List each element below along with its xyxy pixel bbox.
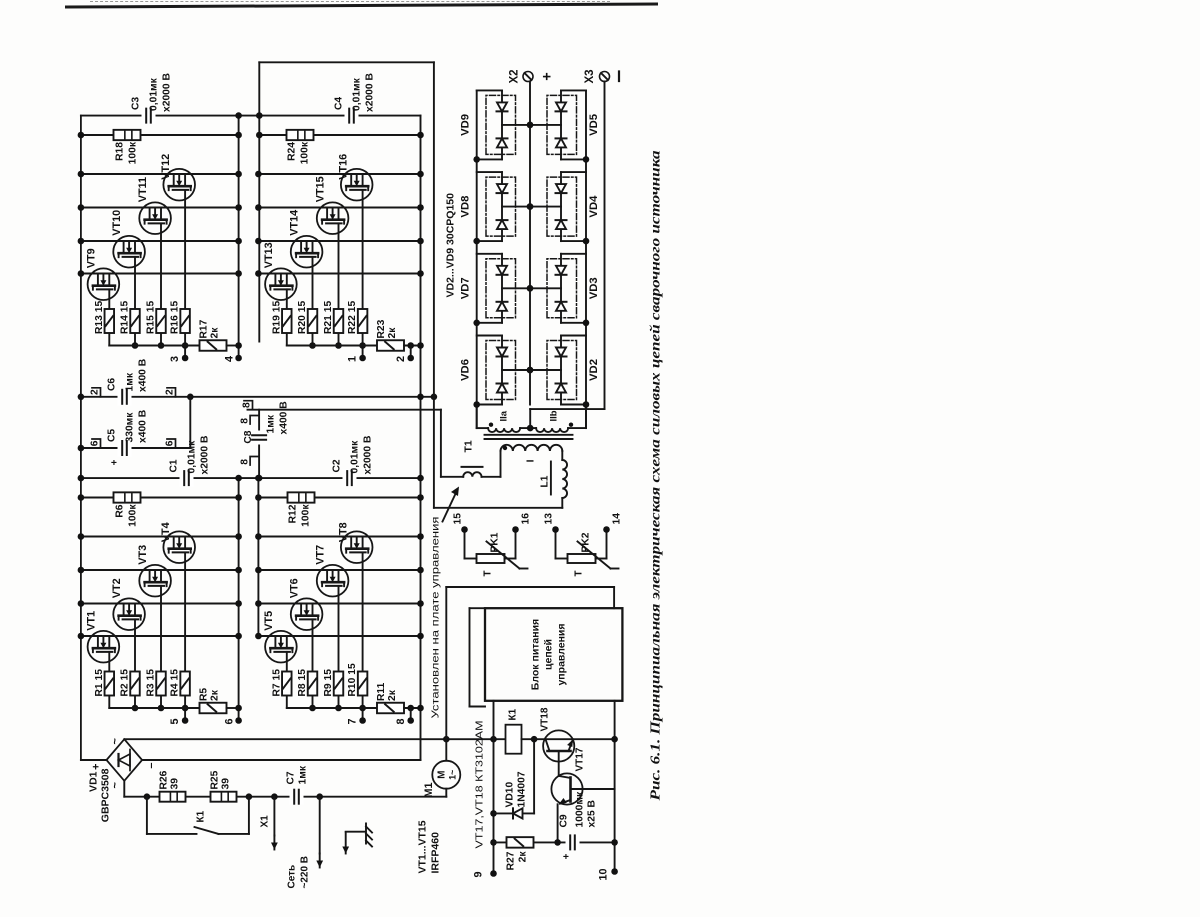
svg-text:VT1...VT15: VT1...VT15 bbox=[416, 820, 428, 873]
wire R18 line bbox=[80, 134, 238, 136]
label installed on control board bbox=[429, 516, 441, 718]
svg-text:C1: C1 bbox=[168, 459, 179, 472]
junction dots column VT7 bbox=[255, 566, 424, 573]
junction dots column VT10 bbox=[77, 237, 241, 244]
svg-text:R26: R26 bbox=[158, 770, 169, 789]
wire gate bus bbox=[109, 707, 199, 709]
transformer T1 core bbox=[484, 434, 572, 438]
junction dot VD10-K1 node bbox=[530, 735, 537, 742]
svg-text:0,01мк: 0,01мк bbox=[351, 77, 362, 111]
svg-text:х2000 В: х2000 В bbox=[161, 73, 172, 112]
svg-text:8: 8 bbox=[239, 458, 250, 464]
junction dots column VT14 bbox=[255, 237, 424, 244]
svg-text:8: 8 bbox=[241, 401, 252, 407]
label VT5 bbox=[262, 610, 274, 630]
svg-text:6: 6 bbox=[89, 440, 100, 446]
wire IIa top to rectifier anode bus bbox=[476, 404, 487, 428]
svg-text:1N4007: 1N4007 bbox=[516, 771, 527, 807]
resistor R5 2k bbox=[199, 702, 226, 713]
label PK2 bbox=[580, 532, 591, 552]
junction dots column VT13 bbox=[255, 270, 424, 277]
svg-text:х2000 В: х2000 В bbox=[362, 435, 373, 474]
transistor VT18 bbox=[543, 730, 574, 761]
wire secondary center segment bbox=[520, 427, 536, 429]
svg-text:х25 В: х25 В bbox=[586, 800, 597, 827]
resistor R10 15 bbox=[357, 671, 367, 695]
svg-text:IRFP460: IRFP460 bbox=[429, 831, 441, 873]
junction dot VD7 on anode bus bbox=[473, 319, 480, 326]
svg-text:2к: 2к bbox=[387, 326, 398, 338]
label VT11 bbox=[137, 176, 149, 201]
svg-text:R25: R25 bbox=[209, 770, 220, 789]
label K1 contact bbox=[195, 810, 206, 822]
wires PK1 to terminals bbox=[461, 526, 519, 558]
label R26 39 bbox=[158, 770, 180, 789]
diode VD3 left half bbox=[555, 301, 566, 310]
terminal 4 (source return) bbox=[223, 354, 241, 361]
terminal X2 bbox=[508, 69, 555, 83]
faint dashed remnant above rule bbox=[90, 1, 610, 3]
label R2 15 bbox=[119, 668, 130, 696]
gate wire VT5 bbox=[285, 651, 287, 707]
junction dots R24 line bbox=[256, 131, 424, 138]
wire VD1 AC right vertex supply column bbox=[124, 738, 505, 740]
wire R27-C9 branch bbox=[493, 839, 614, 846]
junction dots column VT6 bbox=[255, 600, 424, 607]
label VD2...VD9 30CPQ150 bbox=[444, 192, 456, 297]
label VD8 bbox=[459, 195, 471, 217]
label R4 15 bbox=[169, 668, 180, 696]
diode VD5 left half bbox=[555, 138, 566, 147]
label VD5 bbox=[588, 113, 600, 135]
label R13 15 bbox=[93, 300, 104, 333]
svg-text:C7: C7 bbox=[285, 771, 296, 784]
svg-text:R5: R5 bbox=[198, 687, 209, 700]
svg-text:0,01мк: 0,01мк bbox=[186, 439, 197, 473]
junction dot C8 branch bbox=[255, 474, 262, 481]
gate wire VT9 bbox=[108, 289, 110, 345]
svg-text:VT4: VT4 bbox=[160, 522, 172, 542]
label R17 2k bbox=[198, 319, 220, 338]
svg-text:Рис. 6.1. Принципиальная элект: Рис. 6.1. Принципиальная электрическая с… bbox=[647, 150, 662, 800]
svg-text:VD6: VD6 bbox=[459, 359, 471, 381]
wire C6 branch bbox=[80, 395, 433, 397]
svg-text:VT17,VT18 КТ3102АМ: VT17,VT18 КТ3102АМ bbox=[474, 720, 485, 848]
net marker 8 left of C8 bbox=[239, 456, 259, 465]
svg-text:0,01мк: 0,01мк bbox=[148, 77, 159, 111]
label VD4 bbox=[588, 194, 600, 217]
net marker 2 lower on C6 branch bbox=[164, 387, 175, 396]
wire +DC top rail bbox=[79, 115, 81, 759]
svg-text:VD10: VD10 bbox=[504, 781, 515, 807]
svg-text:R20 15: R20 15 bbox=[297, 300, 308, 333]
label VD7 bbox=[459, 277, 471, 299]
svg-text:VT13: VT13 bbox=[262, 242, 274, 268]
svg-text:+: + bbox=[539, 72, 555, 80]
svg-text:PK2: PK2 bbox=[580, 532, 591, 552]
svg-text:2: 2 bbox=[395, 355, 407, 361]
transformer T1 secondary IIa bbox=[488, 422, 520, 432]
diode VD2 left half bbox=[555, 383, 566, 392]
relay contact K1 bypass bbox=[146, 796, 248, 833]
capacitor C6 1mk bbox=[117, 388, 131, 405]
capacitor C8 1mk bbox=[250, 430, 267, 444]
label VD1 GBPC3508 bbox=[87, 768, 111, 822]
capacitor C9 1000mk electrolytic bbox=[561, 834, 579, 859]
svg-text:R24: R24 bbox=[286, 141, 297, 160]
svg-text:2к: 2к bbox=[517, 850, 528, 862]
label K1 coil bbox=[507, 708, 518, 720]
junction dots relay lines bbox=[490, 810, 497, 846]
wire terminal 10 line bbox=[613, 700, 615, 871]
label R16 15 bbox=[169, 300, 180, 333]
label VT14 bbox=[288, 209, 300, 235]
junction dot VD3 on anode bus bbox=[582, 319, 589, 326]
junction dot gate bus R9 bbox=[335, 704, 342, 711]
svg-text:VT7: VT7 bbox=[314, 544, 326, 564]
wire C8 branch bbox=[258, 409, 260, 477]
diode pack VD7 30CPQ150 dashed case bbox=[486, 258, 516, 317]
wire drain-source column of VT1 bbox=[80, 635, 238, 637]
wire fan line to PSU AC loop bbox=[446, 587, 614, 739]
junction dots column VT11 bbox=[77, 204, 241, 211]
svg-text:VT15: VT15 bbox=[314, 176, 326, 202]
diode VD9 left half bbox=[496, 138, 507, 147]
relay coil K1 bbox=[505, 724, 521, 753]
terminal 5 (gate drive) bbox=[169, 717, 188, 724]
resistor R7 15 bbox=[282, 671, 292, 695]
diode VD5 right half bbox=[555, 102, 566, 111]
svg-text:VT10: VT10 bbox=[111, 209, 123, 235]
svg-text:100к: 100к bbox=[299, 141, 310, 164]
svg-text:2к: 2к bbox=[209, 689, 220, 701]
transistor VT14 bbox=[290, 235, 322, 267]
svg-text:6: 6 bbox=[223, 718, 235, 724]
terminal X1 mains pin 1 bbox=[271, 796, 278, 849]
terminal X3 bbox=[584, 69, 619, 83]
net marker 6 lower on C5 branch bbox=[164, 439, 175, 448]
net marker 2 upper on C6 branch bbox=[89, 387, 100, 396]
gate wire VT2 bbox=[134, 619, 136, 708]
svg-text:R15 15: R15 15 bbox=[145, 300, 156, 333]
svg-text:х400 В: х400 В bbox=[137, 358, 148, 391]
label VT1...VT15 IRFP460 bbox=[416, 820, 441, 873]
wire mains to fan line bbox=[445, 739, 447, 797]
capacitor C4 bbox=[344, 107, 358, 124]
capacitor C1 bbox=[179, 469, 193, 486]
resistor R13 15 bbox=[104, 309, 114, 333]
svg-text:VT18: VT18 bbox=[539, 707, 550, 731]
label R27 2k bbox=[505, 850, 528, 870]
svg-text:R23: R23 bbox=[376, 319, 387, 338]
svg-text:VD3: VD3 bbox=[588, 277, 600, 299]
wire drain-source column of VT8 bbox=[258, 535, 420, 537]
wire R17 to bottom rail bbox=[226, 344, 238, 346]
wire drain-source column of VT3 bbox=[80, 569, 238, 571]
label VT16 bbox=[337, 153, 349, 179]
label VT13 bbox=[262, 242, 274, 268]
transistor VT12 bbox=[163, 168, 195, 200]
terminal X1 mains pin 2 bbox=[316, 796, 323, 867]
svg-text:R17: R17 bbox=[198, 319, 209, 338]
wire net 8 to current transformer bbox=[439, 409, 441, 476]
svg-text:VT3: VT3 bbox=[137, 544, 149, 564]
wires diode pack VD7 anodes to bus bbox=[476, 253, 501, 322]
wires diode pack VD6 anodes to bus bbox=[476, 335, 501, 404]
junction dot VD8 on anode bus bbox=[473, 237, 480, 244]
terminal 1 (gate drive) bbox=[346, 354, 365, 361]
svg-text:100к: 100к bbox=[127, 503, 138, 526]
junction dots R12 line bbox=[255, 494, 424, 501]
label VT17 bbox=[574, 747, 585, 771]
svg-text:0,01мк: 0,01мк bbox=[349, 439, 360, 473]
wire C3-C4 snubber line bbox=[80, 114, 420, 116]
diode VD4 right half bbox=[555, 184, 566, 193]
diode pack VD8 30CPQ150 dashed case bbox=[486, 177, 516, 236]
wire drain-source column of VT12 bbox=[80, 173, 238, 175]
wire -DC bottom rail bbox=[419, 115, 421, 759]
junction dot gate bus R15 bbox=[157, 342, 164, 349]
gate wire VT13 bbox=[285, 289, 287, 345]
svg-text:VT6: VT6 bbox=[288, 578, 300, 598]
wire mains line bbox=[124, 795, 446, 797]
svg-text:IIb: IIb bbox=[548, 410, 559, 421]
junction dots R18 line bbox=[77, 131, 241, 138]
transistor VT5 bbox=[265, 630, 297, 662]
svg-text:~: ~ bbox=[109, 737, 121, 744]
wire VT17 base down bbox=[570, 788, 614, 790]
junction dots mains line bbox=[143, 793, 322, 800]
svg-text:Т: Т bbox=[573, 570, 584, 576]
svg-text:VT16: VT16 bbox=[337, 153, 349, 179]
resistor R17 2k bbox=[199, 340, 226, 351]
label R18 100k bbox=[114, 141, 138, 164]
label R10 15 bbox=[347, 663, 358, 696]
chassis ground bbox=[342, 823, 372, 853]
label VT12 bbox=[160, 153, 172, 179]
svg-text:R10 15: R10 15 bbox=[347, 663, 358, 696]
svg-text:R21 15: R21 15 bbox=[323, 300, 334, 333]
inductor L1 bbox=[550, 460, 566, 498]
svg-text:VT5: VT5 bbox=[262, 610, 274, 630]
svg-text:1000мк: 1000мк bbox=[574, 790, 585, 827]
gate wire VT3 bbox=[160, 585, 162, 707]
transistor VT17 bbox=[551, 773, 582, 804]
transistor VT11 bbox=[139, 202, 171, 234]
junction dot gate bus R14 bbox=[131, 342, 138, 349]
svg-text:39: 39 bbox=[220, 777, 231, 789]
label C4 0,01mk x2000V bbox=[333, 73, 375, 112]
svg-text:C2: C2 bbox=[331, 459, 342, 472]
net marker 8 right of C8 bbox=[239, 415, 259, 424]
resistor R24 100k bbox=[286, 129, 313, 139]
terminal labels 13 14 bbox=[543, 512, 622, 524]
svg-text:C9: C9 bbox=[558, 814, 569, 827]
diode pack VD3 30CPQ150 dashed case bbox=[547, 258, 577, 317]
gate wire VT15 bbox=[337, 223, 339, 345]
label R19 15 bbox=[271, 300, 282, 333]
wire C1-C2 snubber line bbox=[80, 477, 420, 479]
wire drain-source column of VT10 bbox=[80, 240, 238, 242]
wire drain-source column of VT2 bbox=[80, 602, 238, 604]
label C1 0,01mk x2000V bbox=[168, 435, 210, 474]
svg-text:Блок питания: Блок питания bbox=[529, 618, 541, 689]
wire drain-source column of VT14 bbox=[258, 240, 420, 242]
svg-text:C4: C4 bbox=[333, 96, 344, 109]
label C5 330mk x400V bbox=[106, 409, 148, 442]
svg-text:39: 39 bbox=[169, 777, 180, 789]
wire VD7 cathode tap bbox=[502, 285, 533, 292]
wire VD6 cathode tap bbox=[502, 366, 533, 373]
wires diode pack VD8 anodes to bus bbox=[476, 172, 501, 241]
label C6 1mk x400V bbox=[106, 358, 148, 391]
svg-text:R8 15: R8 15 bbox=[297, 668, 308, 696]
junction dots column VT1 bbox=[77, 632, 241, 639]
svg-text:управления: управления bbox=[555, 623, 567, 685]
transistor VT6 bbox=[290, 598, 322, 630]
gate wire VT14 bbox=[311, 256, 313, 345]
svg-text:R9 15: R9 15 bbox=[323, 668, 334, 696]
junction dots C1-C2 line bbox=[77, 474, 423, 481]
wires PK2 to terminals bbox=[552, 526, 610, 558]
junction dots column VT4 bbox=[77, 533, 241, 540]
label IIa bbox=[498, 410, 509, 421]
resistor R14 15 bbox=[130, 309, 140, 333]
label VT2 bbox=[111, 578, 123, 598]
svg-text:VD5: VD5 bbox=[588, 113, 600, 135]
transformer T1 primary winding I bbox=[500, 444, 562, 450]
svg-text:VT12: VT12 bbox=[160, 153, 172, 179]
resistor R21 15 bbox=[333, 309, 343, 333]
diode VD7 left half bbox=[496, 301, 507, 310]
label R6 100k bbox=[114, 503, 138, 526]
svg-text:7: 7 bbox=[346, 718, 358, 724]
wire VD8 cathode tap bbox=[502, 203, 533, 210]
junction dot VD5 on anode bus bbox=[582, 156, 589, 163]
junction dots R11 to -rail bbox=[407, 704, 423, 711]
wire VT17 emitter to R27 node bbox=[556, 804, 558, 842]
svg-text:–: – bbox=[145, 762, 157, 768]
wire drain-source column of VT5 bbox=[258, 635, 420, 637]
svg-text:R16 15: R16 15 bbox=[169, 300, 180, 333]
svg-text:X1: X1 bbox=[259, 814, 270, 827]
terminal 6 (source return) bbox=[223, 717, 241, 724]
svg-text:VD7: VD7 bbox=[459, 277, 471, 299]
svg-text:6: 6 bbox=[164, 440, 175, 446]
svg-text:М: М bbox=[436, 770, 447, 778]
svg-text:Т: Т bbox=[482, 570, 493, 576]
transformer T1 secondary IIb bbox=[536, 422, 573, 432]
terminal 9 bbox=[472, 870, 496, 877]
terminal 2 (source return) bbox=[395, 345, 414, 362]
diode VD2 right half bbox=[555, 347, 566, 356]
svg-text:1мк: 1мк bbox=[297, 765, 308, 784]
gate wire VT11 bbox=[160, 223, 162, 345]
junction dot gate bus R2 bbox=[131, 704, 138, 711]
transistor VT16 bbox=[340, 168, 372, 200]
svg-text:R19 15: R19 15 bbox=[271, 300, 282, 333]
gate wire VT6 bbox=[311, 619, 313, 708]
diode VD4 left half bbox=[555, 220, 566, 229]
label C9 1000mk x25V bbox=[558, 790, 597, 827]
wire drain-source column of VT16 bbox=[258, 173, 420, 175]
transistor VT3 bbox=[139, 564, 171, 596]
label C2 0,01mk x2000V bbox=[331, 435, 373, 474]
wire VD3 cathode tap bbox=[526, 285, 560, 292]
svg-text:1~: 1~ bbox=[447, 769, 457, 779]
diode VD6 right half bbox=[496, 347, 507, 356]
svg-text:+: + bbox=[561, 853, 572, 859]
gate wire VT7 bbox=[337, 585, 339, 707]
current transformer primary bbox=[440, 466, 500, 476]
junction dots column VT12 bbox=[77, 170, 241, 177]
arrow to current transformer bbox=[442, 486, 459, 521]
wire drain-source column of VT4 bbox=[80, 535, 238, 537]
capacitor C3 bbox=[141, 107, 155, 124]
fan motor M1 bbox=[432, 760, 460, 788]
resistor R15 15 bbox=[156, 309, 166, 333]
label VT17,VT18 KT3102AM bbox=[474, 720, 485, 848]
wire block I bottom rail (net 6) bbox=[237, 478, 239, 720]
resistor R19 15 bbox=[282, 309, 292, 333]
svg-text:4: 4 bbox=[223, 355, 235, 361]
wire block II top rail bbox=[257, 478, 259, 636]
svg-text:Сеть: Сеть bbox=[286, 864, 297, 888]
label R23 2k bbox=[376, 319, 398, 338]
resistor R9 15 bbox=[333, 671, 343, 695]
junction dots C6 branch bbox=[77, 393, 437, 400]
wire block III bottom rail (net 4) bbox=[237, 115, 239, 359]
transistor VT2 bbox=[113, 598, 145, 630]
transistor VT15 bbox=[316, 202, 348, 234]
wire net 8 vertical bbox=[247, 408, 440, 410]
junction dots R23 to -rail bbox=[407, 342, 423, 349]
wire VT18 through line to 10-line bbox=[521, 735, 617, 742]
wire VD1 minus lead to -rail bbox=[142, 759, 420, 761]
svg-text:R3 15: R3 15 bbox=[145, 668, 156, 696]
wires diode pack VD3 anodes to bus bbox=[561, 253, 586, 322]
svg-text:3: 3 bbox=[169, 355, 181, 361]
resistor R18 100k bbox=[113, 129, 140, 139]
junction dot gate bus R10 bbox=[359, 704, 366, 711]
junction dot C9 bottom bbox=[611, 839, 618, 846]
label tilde marks VD1 bbox=[109, 737, 121, 788]
diode VD8 left half bbox=[496, 220, 507, 229]
label VT18 bbox=[539, 707, 550, 731]
wire drain-source column of VT7 bbox=[258, 569, 420, 571]
junction dot gate bus R20 bbox=[309, 342, 316, 349]
transistor VT9 bbox=[87, 268, 119, 300]
transistor VT7 bbox=[316, 564, 348, 596]
svg-text:+: + bbox=[109, 459, 120, 465]
svg-text:VT17: VT17 bbox=[574, 747, 585, 771]
label R12 100k bbox=[287, 503, 311, 526]
junction dot C5 top bbox=[77, 444, 84, 451]
svg-text:C8: C8 bbox=[243, 430, 254, 443]
net marker 8 top end bbox=[241, 400, 252, 409]
diode VD6 left half bbox=[496, 383, 507, 392]
label VT3 bbox=[137, 544, 149, 564]
junction dot VD6 on anode bus bbox=[473, 401, 480, 408]
junction dots supply column bbox=[443, 735, 497, 742]
svg-text:R12: R12 bbox=[287, 504, 298, 523]
svg-text:х400 В: х400 В bbox=[278, 401, 289, 434]
svg-text:VD2...VD9 30CPQ150: VD2...VD9 30CPQ150 bbox=[444, 192, 456, 297]
wire terminal 9 line bbox=[492, 700, 494, 873]
label M1 bbox=[423, 782, 435, 797]
junction dots column VT8 bbox=[255, 533, 424, 540]
label R5 2k bbox=[198, 687, 220, 700]
